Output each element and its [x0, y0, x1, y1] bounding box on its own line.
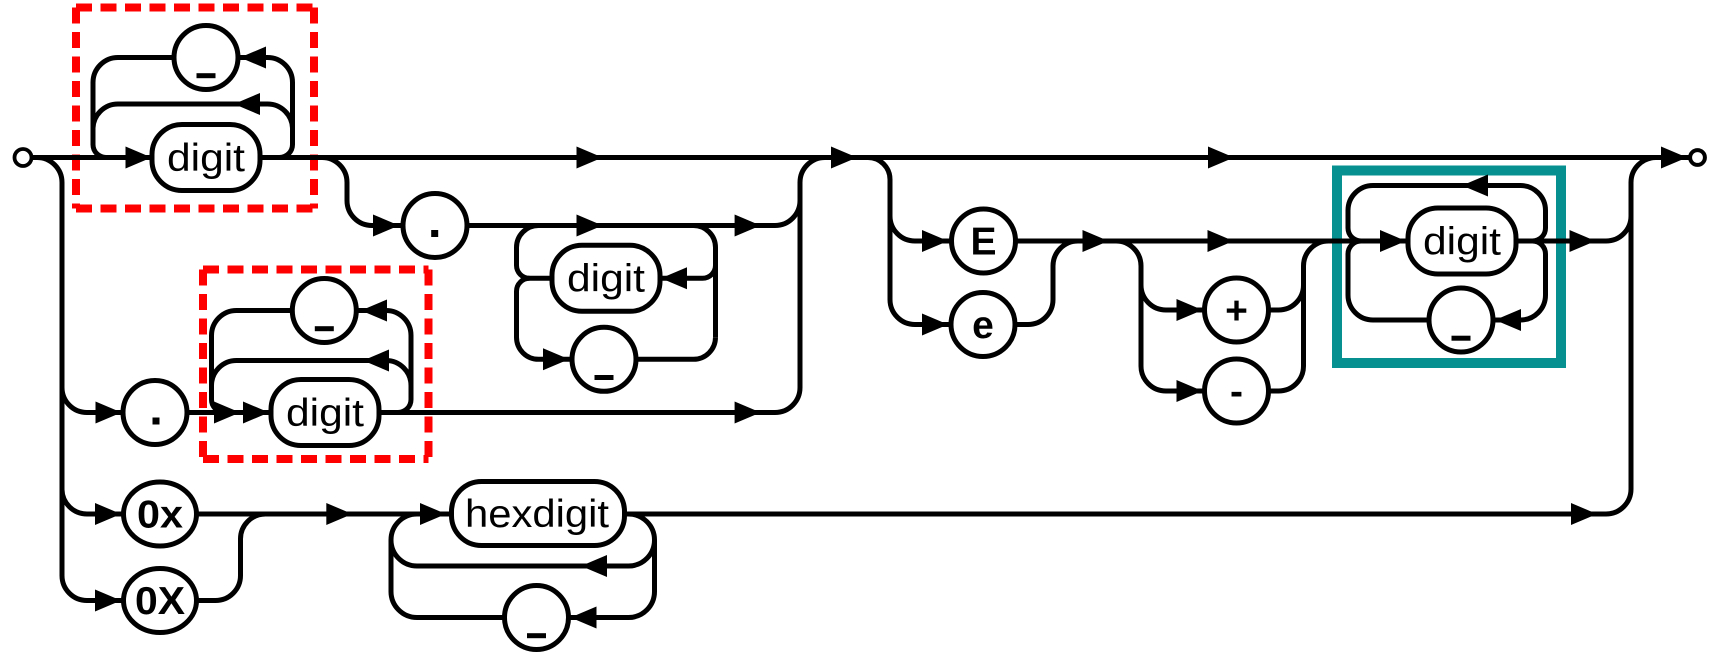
arrow: hex row after merge — [326, 503, 352, 525]
wire: branch S-curve to dot (fraction) — [322, 158, 372, 226]
nonterminal: digit (loop3) — [1408, 208, 1516, 274]
highlight box: teal around exponent digit loop — [1337, 171, 1561, 364]
label: dot fraction — [431, 230, 438, 237]
wire: loop1 back row right arc — [268, 104, 293, 129]
wire: hex loop left rail — [389, 540, 394, 592]
wire: exponent branch arc to E row — [890, 216, 915, 241]
wire: loop1 back row — [118, 102, 268, 107]
wire: fraction loop right rail to digit row — [703, 265, 716, 278]
wire: loop2 right rail — [386, 311, 411, 413]
nonterminal: digit (loop1) — [152, 125, 260, 191]
wire: fraction loop left rail lower — [517, 278, 539, 359]
wire: trunk branch from start down — [37, 158, 87, 601]
wire: loop1 left rail — [93, 58, 118, 158]
svg-text:+: + — [1225, 289, 1248, 332]
arrow: into dot (fraction) — [373, 215, 399, 237]
wire: right rail x1631 — [1629, 183, 1634, 490]
wire: exponent branch rail — [868, 158, 915, 325]
wire: loop2 left rail — [212, 311, 237, 413]
wire: fraction skip row — [372, 223, 775, 228]
wire: hex loop back row — [417, 564, 629, 569]
svg-text:hexdigit: hexdigit — [465, 493, 609, 536]
arrow: loop2 back row — [363, 350, 389, 372]
label: underscore loop2 — [315, 326, 334, 331]
terminal circle: underscore (loop3) — [1429, 288, 1493, 352]
wire: loop3 left rail upper — [1348, 186, 1373, 242]
wire: 0X merge rail — [216, 514, 266, 601]
wire: loop1 underscore row — [118, 55, 268, 60]
wire: merge rail top arc to main — [800, 158, 825, 183]
arrow: into E — [922, 230, 948, 252]
wire: loop3 back row — [1373, 183, 1521, 188]
label: underscore loop1 — [197, 73, 216, 78]
arrow: hex row exit — [1571, 503, 1597, 525]
terminal circle: dot (branch B) — [123, 381, 187, 445]
svg-text:digit: digit — [1423, 220, 1501, 263]
arrow: into plus — [1177, 299, 1203, 321]
nonterminal: hexdigit — [452, 482, 625, 546]
arrow: before end terminal — [1661, 147, 1687, 169]
arrow: into digit loop1 — [126, 147, 152, 169]
wire: 0X row — [87, 598, 216, 603]
wire: trunk to 0x row — [62, 490, 87, 515]
wire: hex merge arc into right rail — [1606, 489, 1631, 514]
wire: hex loop underscore row left arc — [391, 592, 417, 618]
wire: sign merge rail — [1279, 241, 1329, 310]
wire: loop2 back row left arc — [212, 361, 237, 386]
label: underscore hex loop — [527, 633, 546, 638]
terminal circle: underscore (hex loop) — [505, 586, 569, 650]
nonterminal: digit (fraction loop) — [552, 245, 660, 311]
label: underscore fraction — [595, 375, 614, 380]
arrow: into minus — [1177, 380, 1203, 402]
terminal circle: E — [952, 209, 1016, 273]
wire: fraction merge arc into rail — [775, 201, 800, 226]
node: start terminal — [15, 149, 32, 166]
wire: fraction loop left rail top arc — [517, 226, 539, 248]
arrow: into dot (branch B) — [96, 402, 122, 424]
arrow: into 0x — [95, 503, 121, 525]
svg-text:E: E — [970, 220, 996, 263]
wire: exponent row — [915, 239, 1606, 244]
terminal circle: dot (fraction) — [403, 194, 467, 258]
wire: hex loop right rail entry arc — [629, 514, 655, 540]
arrow: loop3 underscore back — [1495, 309, 1521, 331]
svg-text:digit: digit — [567, 258, 645, 301]
wire: minus row — [1166, 389, 1279, 394]
arrow: loop2 underscore back — [361, 300, 387, 322]
wire: exponent exit merge arc — [1606, 216, 1631, 241]
wire: hex loop left rail top arc — [391, 514, 417, 540]
wire: dot-branch row — [87, 410, 775, 415]
svg-text:e: e — [972, 304, 994, 347]
wire: hex loop underscore row right arc — [629, 592, 655, 618]
arrow: into digit loop3 — [1380, 230, 1406, 252]
wire: loop3 underscore row — [1373, 318, 1521, 323]
wire: hex row — [87, 512, 1606, 517]
arrow: main skip line — [577, 147, 603, 169]
arrow: branch B exit — [735, 402, 761, 424]
arrow: exponent skip line — [1208, 147, 1234, 169]
wire: loop1 back row left arc — [93, 104, 118, 129]
wire: loop2 underscore row — [237, 308, 387, 313]
arrow: into e — [922, 314, 948, 336]
arrow: into underscore (fraction) — [543, 348, 569, 370]
arrow: into digit loop2 first — [214, 402, 240, 424]
wire: fraction loop right rail bottom arc — [694, 337, 716, 359]
wire: loop3 right rail upper — [1521, 186, 1546, 242]
arrow: hex loop underscore back — [571, 607, 597, 629]
wire: merge rail x800 — [798, 183, 803, 388]
terminal circle: plus — [1205, 278, 1269, 342]
wire: plus row — [1166, 308, 1279, 313]
wire: main line y157 — [32, 155, 1692, 160]
wire: loop2 back row — [237, 358, 387, 363]
wire: hex loop right rail — [652, 540, 657, 592]
arrow: loop1 underscore back — [240, 47, 266, 69]
wire: fraction loop left rail upper — [517, 248, 530, 279]
arrow: loop3 back row — [1462, 175, 1488, 197]
terminal circle: underscore (loop2) — [292, 279, 356, 343]
wire: minus merge arc — [1279, 285, 1304, 391]
arrow: into digit loop2 second — [243, 402, 269, 424]
wire: trunk to dot-branch row — [62, 388, 87, 413]
arrow: sign skip — [1208, 230, 1234, 252]
highlight box: red dashed around integer-part digit loop — [76, 8, 314, 209]
arrow: after fraction merge — [831, 147, 857, 169]
arrow: into 0X — [95, 590, 121, 612]
wire: fraction digit row — [530, 276, 703, 281]
arrow: fraction skip end — [735, 215, 761, 237]
arrow: exponent exit — [1570, 230, 1596, 252]
arrow: after Ee merge — [1083, 230, 1109, 252]
svg-text:0X: 0X — [135, 580, 185, 623]
terminal ellipse: 0X — [124, 569, 197, 633]
wire: loop3 left rail lower — [1348, 241, 1373, 320]
wire: right rail top arc to main — [1631, 158, 1656, 183]
wire: hex loop back row right arc — [629, 540, 655, 566]
terminal circle: underscore (loop1) — [174, 26, 238, 90]
terminal ellipse: 0x — [124, 482, 197, 546]
terminal circle: minus — [1205, 359, 1269, 423]
wire: e row — [915, 322, 1028, 327]
wire: sign branch arc to plus row — [1141, 285, 1166, 310]
wire: dot-branch merge arc — [775, 388, 800, 413]
svg-text:digit: digit — [167, 137, 245, 180]
arrow: into hexdigit — [420, 503, 446, 525]
terminal circle: underscore (fraction loop) — [572, 327, 636, 391]
wire: fraction loop right rail — [694, 226, 716, 338]
highlight box: red dashed around fraction-part digit loop — [203, 270, 429, 460]
svg-text:-: - — [1230, 370, 1243, 413]
svg-text:digit: digit — [286, 392, 364, 435]
label: dot branch B — [153, 418, 160, 425]
svg-text:0x: 0x — [137, 493, 183, 536]
nonterminal: digit (loop2) — [271, 380, 379, 446]
wire: fraction underscore row — [539, 357, 694, 362]
node: end terminal — [1690, 150, 1705, 165]
wire: loop1 right rail — [268, 58, 293, 158]
arrow: fraction skip mid — [577, 215, 603, 237]
wire: e merge rail — [1028, 241, 1078, 325]
terminal circle: e — [951, 293, 1015, 357]
arrow: back into digit (fraction) — [661, 267, 687, 289]
wire: hex loop back row left arc — [391, 540, 417, 566]
arrow: loop1 back row — [234, 93, 260, 115]
wire: sign branch rail — [1116, 241, 1166, 391]
label: underscore loop3 — [1452, 336, 1471, 341]
wire: loop2 back row right arc — [386, 361, 411, 386]
arrow: hex loop back row — [581, 555, 607, 577]
wire: loop3 right rail lower — [1521, 241, 1546, 320]
wire: hex loop underscore row — [417, 615, 629, 620]
